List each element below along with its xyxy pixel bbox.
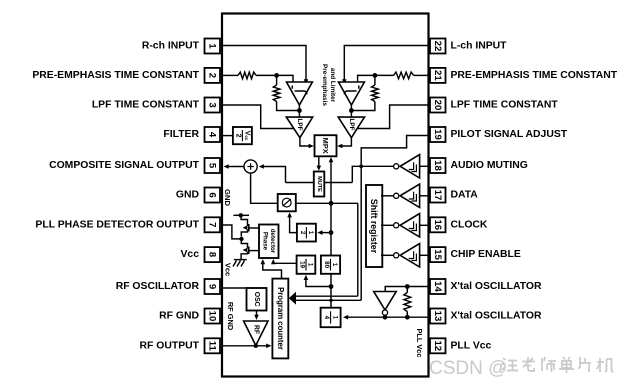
block shift register SR1 <box>366 185 382 267</box>
svg-text:R-ch INPUT: R-ch INPUT <box>142 41 200 52</box>
watermark CSDN <box>429 358 507 379</box>
svg-text:LPF TIME CONSTANT: LPF TIME CONSTANT <box>451 100 559 111</box>
wire program counter to phase detector <box>263 262 282 279</box>
svg-text:1: 1 <box>307 263 314 267</box>
wire R2 bottom to amp A1 output node <box>277 102 300 111</box>
pin 10 box <box>205 309 221 324</box>
op-amp LPF2 L-ch <box>338 117 364 138</box>
svg-text:PRE-EMPHASIS TIME CONSTANT: PRE-EMPHASIS TIME CONSTANT <box>32 70 199 81</box>
wire pin9 to OSC <box>222 287 247 289</box>
block divider 1/2 <box>297 224 316 242</box>
svg-text:Vcc: Vcc <box>224 263 233 276</box>
svg-text:PILOT SIGNAL ADJUST: PILOT SIGNAL ADJUST <box>451 129 568 140</box>
svg-text:8: 8 <box>207 252 218 258</box>
svg-text:6: 6 <box>207 192 218 197</box>
wire pin18 to buffer <box>420 165 429 167</box>
wire pin22 L-ch input to amp A2 <box>344 46 428 81</box>
wire bus left line <box>357 203 359 296</box>
resistor R3 pre-emphasis L-ch <box>394 72 414 79</box>
svg-text:20: 20 <box>432 100 443 111</box>
node bus crossing <box>329 299 332 302</box>
wire pin4 to Vcc/2 <box>222 135 233 137</box>
svg-text:X'tal OSCILLATOR: X'tal OSCILLATOR <box>451 281 542 292</box>
node RF amp output <box>254 344 258 348</box>
pin 11 box <box>205 338 221 353</box>
wire pin7 to charge pump node <box>222 225 240 239</box>
watermark chinese characters <box>502 357 614 373</box>
svg-text:19: 19 <box>432 129 443 140</box>
wire A1 output to LPF1 <box>298 105 300 117</box>
wire pin16 to buffer <box>420 224 429 226</box>
summing node S1 <box>244 160 257 173</box>
svg-text:22: 22 <box>432 41 443 52</box>
buffer B17 schmitt input <box>394 184 420 207</box>
node supply dot <box>239 213 243 217</box>
wire LPF2 to MPX <box>341 138 351 146</box>
transistor Q1 <box>241 215 259 236</box>
wire R3 to amp A2 input <box>358 75 394 82</box>
pin 18 box <box>430 158 446 173</box>
wire inverter output to pin13 node <box>384 315 386 317</box>
resistor R5 crystal feedback <box>404 287 411 318</box>
ground symbol charge pump <box>233 260 247 267</box>
node resistor bottom junction <box>405 315 410 320</box>
node pin7 output <box>239 237 243 241</box>
svg-text:16: 16 <box>432 219 443 230</box>
buffer B15 schmitt input <box>394 244 420 267</box>
op-amp RF output amp <box>244 321 268 346</box>
svg-text:19: 19 <box>299 261 306 268</box>
block Vcc/2 reference <box>233 127 252 144</box>
svg-text:80: 80 <box>323 261 330 268</box>
wire buffer B17 to shift register <box>381 195 394 197</box>
pin 4 box <box>205 127 221 142</box>
svg-text:X'tal OSCILLATOR: X'tal OSCILLATOR <box>451 311 542 322</box>
pin 12 box <box>430 338 446 353</box>
wire 1/2 output to phase shifter <box>290 215 297 233</box>
node A1 output <box>297 108 302 113</box>
svg-text:OSC: OSC <box>253 292 260 307</box>
svg-text:4: 4 <box>207 132 218 138</box>
wire feedback stub top R4 <box>374 75 376 85</box>
svg-text:2: 2 <box>207 73 218 78</box>
svg-text:2: 2 <box>299 231 306 235</box>
wire feedback stub top R2 <box>276 75 278 85</box>
pin 1 box <box>205 39 221 54</box>
svg-text:21: 21 <box>432 70 443 81</box>
svg-text:9: 9 <box>207 284 218 289</box>
wire 1/80 to node N80 <box>330 274 332 308</box>
node amp A1 input junction <box>274 73 279 78</box>
op-amp LPF1 R-ch <box>286 117 312 138</box>
svg-text:DATA: DATA <box>451 190 479 201</box>
wire MUTE box through line <box>286 182 353 184</box>
svg-text:RF OUTPUT: RF OUTPUT <box>140 340 200 351</box>
svg-text:PLL Vcc: PLL Vcc <box>451 340 492 351</box>
IC body U1 <box>222 14 429 377</box>
svg-text:2: 2 <box>235 134 242 138</box>
pin 3 box <box>205 98 221 113</box>
block phase shifter PS1 <box>278 194 296 211</box>
svg-text:PLL PHASE DETECTOR OUTPUT: PLL PHASE DETECTOR OUTPUT <box>35 219 199 230</box>
svg-text:1: 1 <box>331 316 338 320</box>
wire pin21 to resistor R3 <box>414 74 429 76</box>
svg-text:Phase: Phase <box>261 232 268 251</box>
node amp A2 input junction <box>373 73 378 78</box>
node pilot adjust junction <box>329 201 334 206</box>
svg-text:RF GND: RF GND <box>226 302 235 331</box>
op-amp A2 pre-emphasis limiter L-ch <box>339 82 365 105</box>
block divider 1/80 <box>321 256 340 274</box>
op-amp crystal inverter <box>374 292 397 316</box>
svg-text:FILTER: FILTER <box>163 129 199 140</box>
svg-text:GND: GND <box>223 189 232 206</box>
pin 20 box <box>430 98 446 113</box>
svg-text:RF GND: RF GND <box>159 311 199 322</box>
svg-text:GND: GND <box>176 190 200 201</box>
svg-text:MPX: MPX <box>321 138 330 154</box>
svg-text:Pre-emphasis: Pre-emphasis <box>321 64 328 106</box>
pin 21 box <box>430 68 446 83</box>
block OSC RF oscillator <box>247 288 267 311</box>
pin 16 box <box>430 217 446 232</box>
node inverter output junction <box>383 315 388 320</box>
svg-text:and Limiter: and Limiter <box>329 68 336 103</box>
wire buffer B16 to shift register <box>381 224 394 226</box>
wire MUTE output to summing <box>262 167 286 183</box>
svg-text:PLL Vcc: PLL Vcc <box>415 328 424 357</box>
wire pin3 LPF time constant to LPF1 <box>222 105 294 129</box>
wire audio muting buffer to MUTE <box>352 166 393 182</box>
svg-text:12: 12 <box>432 340 443 351</box>
transistor Q2 <box>241 241 259 259</box>
wire pin15 to buffer <box>420 254 429 256</box>
block MUTE <box>314 172 325 197</box>
buffer B16 schmitt input <box>394 214 420 237</box>
charge pump supply bar <box>234 214 250 216</box>
svg-text:1: 1 <box>331 263 338 267</box>
svg-text:1: 1 <box>207 43 218 49</box>
svg-text:CHIP ENABLE: CHIP ENABLE <box>451 249 521 260</box>
wire summing to phase shifter <box>251 173 278 203</box>
node pilot adjust crossing <box>359 164 363 168</box>
pin 5 box <box>205 158 221 173</box>
block phase detector PD1 <box>259 225 279 259</box>
svg-text:1: 1 <box>307 231 314 235</box>
svg-text:14: 14 <box>432 281 443 292</box>
block program counter PC1 <box>272 279 288 359</box>
svg-text:4: 4 <box>323 316 330 320</box>
node pilot tap to 1/2 <box>329 230 334 235</box>
svg-text:PRE-EMPHASIS TIME CONSTANT: PRE-EMPHASIS TIME CONSTANT <box>451 70 618 81</box>
svg-text:CLOCK: CLOCK <box>451 219 488 230</box>
wire pilot line MPX down to 1/80 <box>330 162 332 256</box>
svg-text:Vcc: Vcc <box>181 249 200 260</box>
node N80 divider junction <box>329 284 334 289</box>
pin 15 box <box>430 247 446 262</box>
pin 22 box <box>430 39 446 54</box>
wire pin20 LPF time constant to LPF2 <box>357 105 428 129</box>
wire pin13 to divider 1/4 <box>345 316 429 318</box>
pin 13 box <box>430 309 446 324</box>
svg-text:11: 11 <box>207 341 218 352</box>
wire MPX to MUTE <box>318 156 320 167</box>
wire pin2 to resistor R1 <box>222 74 238 76</box>
arrow bus into program counter <box>289 292 296 305</box>
wire pin11 RF output <box>222 345 268 347</box>
wire phase shifter right to pilot junction <box>296 202 358 204</box>
block divider 1/4 <box>321 308 341 328</box>
node resistor top <box>405 284 410 289</box>
svg-text:AUDIO MUTING: AUDIO MUTING <box>451 160 528 171</box>
wire R4 bottom to amp A2 output node <box>351 102 375 111</box>
wire N80 to 1/19 input <box>306 279 331 287</box>
svg-text:detector: detector <box>269 229 276 254</box>
wire bus horizontal to program counter <box>294 296 361 300</box>
block divider 1/19 <box>297 256 316 274</box>
pin 19 box <box>430 127 446 142</box>
svg-text:LPF: LPF <box>348 118 355 130</box>
pin 7 box <box>205 217 221 232</box>
svg-text:RF OSCILLATOR: RF OSCILLATOR <box>116 281 200 292</box>
wire A2 output to LPF2 <box>350 105 352 117</box>
resistor R2 feedback R-ch <box>273 85 280 102</box>
wire OSC to RF amp <box>256 311 258 317</box>
svg-text:L-ch INPUT: L-ch INPUT <box>451 41 508 52</box>
wire 1/2 tap to divider 1/2 <box>320 232 331 234</box>
svg-text:Shift register: Shift register <box>369 199 379 254</box>
svg-text:10: 10 <box>207 311 218 322</box>
block MPX <box>315 135 337 156</box>
buffer B18 schmitt input <box>394 155 420 178</box>
wire buffer B15 to shift register <box>381 254 394 256</box>
resistor R4 feedback L-ch <box>372 85 379 102</box>
svg-text:3: 3 <box>207 102 218 107</box>
wire pin1 R-ch input to amp A1 <box>222 46 306 81</box>
svg-text:15: 15 <box>432 249 443 260</box>
wire summing to pin5 composite output <box>228 166 244 168</box>
pin 2 box <box>205 68 221 83</box>
wire 1/19 to phase detector <box>273 262 296 263</box>
svg-text:18: 18 <box>432 160 443 171</box>
svg-text:COMPOSITE SIGNAL OUTPUT: COMPOSITE SIGNAL OUTPUT <box>49 160 200 171</box>
svg-text:7: 7 <box>207 222 218 227</box>
svg-text:LPF: LPF <box>296 118 303 130</box>
svg-text:17: 17 <box>432 190 443 201</box>
wire pin17 to buffer <box>420 195 429 197</box>
svg-text:MUTE: MUTE <box>316 176 322 192</box>
svg-text:CSDN @: CSDN @ <box>429 358 507 379</box>
pin 14 box <box>430 279 446 294</box>
wire pin14 to crystal inverter <box>385 287 428 292</box>
pin 9 box <box>205 279 221 294</box>
wire R1 to amp A1 input <box>256 75 293 82</box>
wire LPF1 to MPX <box>300 138 310 146</box>
node A2 output <box>349 108 354 113</box>
svg-text:13: 13 <box>432 311 443 322</box>
pin 17 box <box>430 188 446 203</box>
svg-text:LPF TIME CONSTANT: LPF TIME CONSTANT <box>92 100 200 111</box>
svg-text:5: 5 <box>207 163 218 169</box>
svg-text:Vcc: Vcc <box>243 131 250 141</box>
wire pin19 pilot signal adjust <box>361 136 428 301</box>
resistor R1 pre-emphasis R-ch <box>238 72 256 79</box>
op-amp A1 pre-emphasis limiter R-ch <box>287 82 313 105</box>
pin 6 box <box>205 188 221 203</box>
svg-text:RF: RF <box>252 325 259 334</box>
svg-text:Program counter: Program counter <box>276 287 285 350</box>
pin 8 box <box>205 247 221 262</box>
